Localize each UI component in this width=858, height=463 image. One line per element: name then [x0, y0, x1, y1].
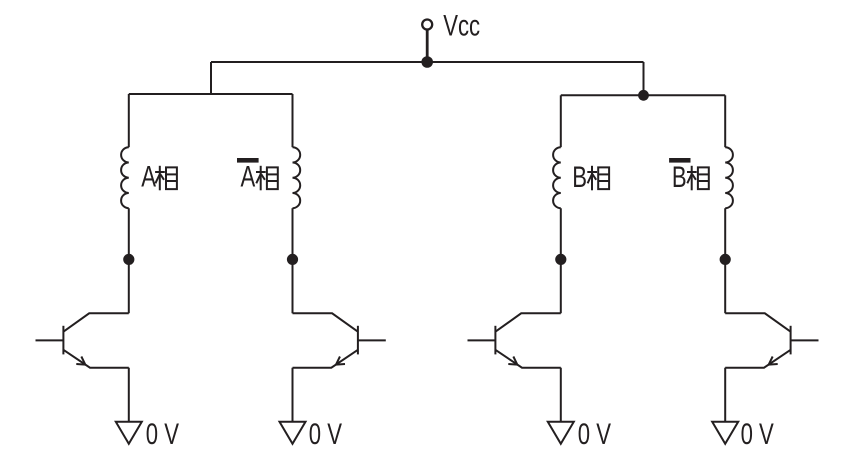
wire top bus: [211, 61, 644, 63]
wire stub from bus to A-phase bar: [210, 62, 212, 94]
ground under Q1: [116, 422, 142, 444]
wire Q1 emitter to ground: [128, 368, 130, 422]
inductor coil B-phase: [553, 147, 561, 208]
svg-text:Vcc: Vcc: [443, 8, 480, 42]
svg-text:0 V: 0 V: [741, 417, 775, 451]
junction dot Vcc node: [421, 56, 433, 68]
wire A-phase lower: [128, 208, 130, 313]
junction dot A-phase collector node: [123, 254, 134, 265]
junction dot B branch node: [638, 90, 649, 101]
ground under Q4: [712, 422, 738, 444]
svg-text:0 V: 0 V: [309, 417, 343, 451]
ground under Q3: [548, 422, 574, 444]
junction dot A-bar-phase collector node: [287, 254, 298, 265]
transistor Q3 (B-phase, base left): [468, 313, 561, 367]
junction dot B-phase collector node: [555, 254, 566, 265]
label B-phase: sou glyph: [587, 166, 609, 191]
wire Q3 emitter to ground: [560, 368, 562, 422]
svg-text:A: A: [141, 160, 156, 194]
svg-text:B: B: [572, 160, 587, 194]
svg-text:0 V: 0 V: [578, 417, 612, 451]
wire B-bar-phase upper: [724, 95, 726, 147]
wire B-phase lower: [560, 208, 562, 313]
wire B-phase top bar: [561, 94, 725, 96]
inductor coil A-phase: [121, 147, 129, 208]
transistor Q4 (B-bar-phase, base right, mirrored): [725, 313, 818, 367]
wire A-bar-phase lower: [292, 208, 294, 313]
wire Vcc terminal stub: [426, 29, 429, 62]
transistor Q2 (A-bar-phase, base right, mirrored): [293, 313, 386, 367]
wire A-phase top bar: [129, 93, 293, 95]
inductor coil A-bar-phase: [293, 147, 301, 208]
svg-text:B: B: [672, 160, 687, 194]
label A-bar-phase: overbar: [237, 158, 259, 163]
transistor Q1 (A-phase, base left): [36, 313, 129, 367]
wire drop from bus to B-phase bar: [643, 62, 645, 95]
ground under Q2: [280, 422, 306, 444]
label A-phase: sou glyph: [155, 166, 177, 191]
label A-bar-phase: sou glyph: [256, 166, 278, 191]
Vcc terminal circle: [422, 20, 432, 30]
wire A-bar-phase upper: [292, 94, 294, 147]
svg-text:0 V: 0 V: [146, 417, 180, 451]
wire Q4 emitter to ground: [724, 368, 726, 422]
label B-bar-phase: overbar: [669, 158, 690, 163]
label B-bar-phase: sou glyph: [687, 166, 709, 191]
inductor coil B-bar-phase: [725, 147, 733, 208]
wire Q2 emitter to ground: [292, 368, 294, 422]
wire A-phase upper: [128, 94, 130, 147]
wire B-bar-phase lower: [724, 208, 726, 313]
wire B-phase upper: [560, 95, 562, 147]
junction dot B-bar-phase collector node: [720, 254, 731, 265]
svg-text:A: A: [241, 160, 256, 194]
